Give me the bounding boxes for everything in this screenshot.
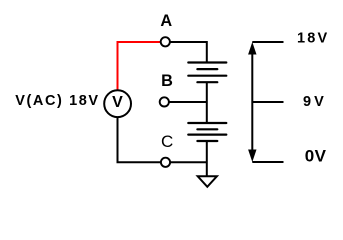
tick 9V [252, 101, 283, 103]
wire node C to ground lead [171, 161, 207, 163]
node B [160, 97, 169, 106]
wire node B to middle lead [169, 101, 207, 103]
svg-text:18V: 18V [297, 30, 329, 46]
svg-text:9V: 9V [303, 94, 327, 110]
voltage scale arrow (double headed) [251, 50, 253, 154]
battery BT2 (bottom cell pair) [188, 123, 226, 141]
svg-text:C: C [161, 132, 173, 151]
tick 0V [252, 161, 283, 163]
wire red top (V source to node A) [118, 42, 161, 90]
svg-text:0V: 0V [305, 146, 327, 165]
node C [161, 158, 170, 167]
battery BT1 (top cell pair) [188, 63, 226, 83]
tick 18V [252, 41, 283, 43]
wire V source bottom to node C [118, 118, 161, 163]
wire battery middle lead [206, 82, 208, 123]
svg-text:V(AC) 18V: V(AC) 18V [15, 93, 100, 109]
svg-text:B: B [161, 72, 173, 90]
node A [161, 37, 170, 46]
wire battery bottom lead to ground [206, 141, 208, 176]
wire node A to battery top [170, 42, 207, 63]
svg-text:A: A [160, 12, 172, 30]
voltage source V (AC) [104, 90, 131, 117]
svg-text:V: V [112, 94, 123, 111]
ground [198, 176, 217, 187]
